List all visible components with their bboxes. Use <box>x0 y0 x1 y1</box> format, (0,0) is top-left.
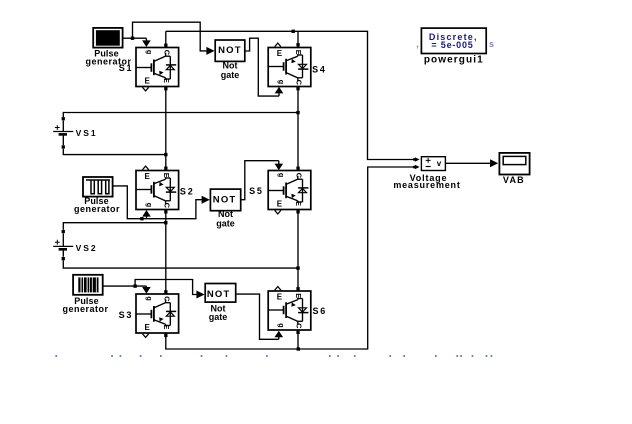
label: Pulse generator (3) <box>62 296 108 314</box>
S6 unconnected E port marker <box>275 287 281 291</box>
S5 collector port <box>296 167 299 170</box>
S2 collector (top) port <box>164 167 167 170</box>
svg-text:VAB: VAB <box>503 175 525 185</box>
svg-text:E: E <box>145 77 151 86</box>
svg-text:C: C <box>295 173 304 178</box>
wire: branch up to S2 gate <box>142 210 151 219</box>
faint clipped text artifacts beside powergui block <box>416 39 494 49</box>
wire: branch up and over to NOT gate 1 input <box>133 22 215 55</box>
svg-text:S1: S1 <box>119 63 134 73</box>
wire: voltage measurement output to scope <box>445 159 498 167</box>
S3 collector port <box>164 290 167 293</box>
S5 unconnected E port marker <box>275 210 281 214</box>
wire: bottom rail from S3 emitter up to voltage measurement - input <box>166 167 414 349</box>
scope VAB <box>499 153 529 175</box>
junction: S6 joins bottom rail <box>297 347 300 350</box>
S4 unconnected E port marker <box>275 43 281 47</box>
svg-text:g: g <box>277 80 286 84</box>
svg-text:C: C <box>295 80 304 85</box>
faint blue caption dots along the bottom <box>55 355 492 357</box>
wire: NOT gate 1 output to S4 gate <box>245 38 283 96</box>
svg-text:generator: generator <box>74 204 120 214</box>
junction: VS1 plus joins right leg <box>296 111 299 114</box>
wire: VS2 - down and to right leg <box>63 260 298 268</box>
wire: PG2 output over to NOT gate 2 input <box>113 186 210 219</box>
NOT gate U2 <box>210 189 240 211</box>
S2 bottom port <box>164 210 167 213</box>
svg-text:measurement: measurement <box>393 180 460 190</box>
svg-text:NOT: NOT <box>213 195 237 206</box>
powergui block <box>421 28 486 53</box>
wire: drop to S4 collector <box>297 31 299 47</box>
label: Pulse generator (1) <box>85 49 131 67</box>
svg-text:E: E <box>294 293 303 298</box>
svg-text:E: E <box>277 200 283 209</box>
wire: Pulse generator 1 output <box>123 37 133 39</box>
voltage measurement block U4 <box>421 157 445 171</box>
wire: left leg S1 emitter to S2 collector <box>165 87 167 171</box>
wire: branch to S3 gate <box>135 286 151 294</box>
S4 collector port <box>296 43 299 46</box>
pulse generator 1 (black icon block) <box>93 28 122 48</box>
S3 emitter port <box>164 334 167 337</box>
label: Pulse generator (2) <box>74 196 120 214</box>
junction: top rail branch to S4 collector <box>292 30 295 33</box>
svg-text:VS2: VS2 <box>76 243 98 253</box>
wire: branch over to NOT gate 3 input <box>135 280 205 299</box>
wire: VS1 - down and to left leg <box>63 149 166 155</box>
svg-text:C: C <box>162 50 171 55</box>
voltage measurement - input port <box>413 165 420 170</box>
DC source VS2 <box>53 230 73 260</box>
S2 unconnected E port marker <box>143 166 149 170</box>
S6 collector (top) port <box>296 287 299 290</box>
S6 bottom port <box>296 331 299 334</box>
voltage measurement + input port <box>413 157 420 162</box>
junction: PG1 output branch <box>131 37 134 40</box>
junction: VS2 plus joins left leg <box>164 221 167 224</box>
svg-text:generator: generator <box>62 304 108 314</box>
junction: VS2 minus joins right leg <box>296 266 299 269</box>
svg-text:gate: gate <box>209 312 228 322</box>
svg-text:E: E <box>145 172 151 181</box>
NOT gate U1 <box>215 40 245 61</box>
transistor S3 (IGBT/Diode) <box>136 294 179 333</box>
svg-text:gate: gate <box>221 70 240 80</box>
wire: right leg S5 emitter to S6 collector <box>297 210 299 292</box>
svg-text:= 5e-005: = 5e-005 <box>431 40 473 50</box>
pulse generator 2 (pulse icon block) <box>83 177 113 197</box>
S5 emitter port <box>296 210 299 213</box>
svg-text:VS1: VS1 <box>76 128 98 138</box>
svg-text:E: E <box>162 173 171 178</box>
S1 collector port <box>164 44 167 47</box>
svg-text:E: E <box>162 78 171 83</box>
wire: branch to S1 gate <box>133 38 151 47</box>
wire: PG3 output <box>103 285 135 287</box>
pulse generator 3 (dense pulse icon block) <box>73 275 103 295</box>
svg-text:g: g <box>145 203 154 207</box>
transistor S1 (IGBT/Diode) <box>136 48 179 87</box>
S1 emitter port <box>164 87 167 90</box>
svg-text:S2: S2 <box>180 186 195 196</box>
junction: PG2 wire branch to S2 gate <box>140 217 143 220</box>
transistor S5 (IGBT/Diode) <box>268 171 311 210</box>
DC source VS1 <box>53 117 73 149</box>
wire: S1 collector up to top rail <box>165 31 167 47</box>
svg-text:s: s <box>489 39 494 49</box>
svg-text:S4: S4 <box>312 65 327 75</box>
svg-text:v: v <box>437 159 442 168</box>
svg-text:E: E <box>277 49 283 58</box>
svg-text:E: E <box>145 323 151 332</box>
label: Not gate (2) <box>216 209 235 228</box>
svg-text:g: g <box>145 50 154 54</box>
S3 unconnected E port marker <box>143 334 149 338</box>
svg-text:gate: gate <box>216 218 235 228</box>
svg-text:S6: S6 <box>312 306 327 316</box>
transistor S4 (IGBT/Diode, flipped) <box>268 48 311 87</box>
NOT gate U3 <box>205 284 236 303</box>
junction: VS1 minus joins left leg <box>164 153 167 156</box>
svg-text:,: , <box>416 39 419 49</box>
svg-text:E: E <box>294 50 303 55</box>
wire: NOT gate 3 output to S6 gate <box>236 294 283 339</box>
label: Not gate (1) <box>221 61 240 80</box>
svg-text:NOT: NOT <box>218 45 242 56</box>
svg-text:E: E <box>294 201 303 206</box>
wire: left leg S2 to S3 <box>165 210 167 295</box>
svg-text:NOT: NOT <box>207 289 231 300</box>
svg-text:C: C <box>162 296 171 301</box>
transistor S6 (IGBT/Diode, flipped) <box>268 291 311 330</box>
wire: right leg S4 emitter to S5 collector <box>297 87 299 171</box>
label: Voltage measurement <box>393 173 460 190</box>
svg-text:S5: S5 <box>249 186 264 196</box>
S1 unconnected E port marker <box>143 87 149 91</box>
svg-text:C: C <box>162 203 171 208</box>
svg-text:g: g <box>145 296 154 300</box>
svg-text:E: E <box>277 292 283 301</box>
wire: NOT gate 2 output to S5 gate <box>241 161 283 200</box>
label: Not gate (3) <box>209 304 228 322</box>
S4 emitter port <box>296 87 299 90</box>
svg-text:g: g <box>277 323 286 327</box>
svg-text:g: g <box>277 173 286 177</box>
svg-text:E: E <box>162 325 171 330</box>
transistor S2 (IGBT/Diode, flipped) <box>136 171 179 210</box>
svg-text:powergui1: powergui1 <box>424 55 484 66</box>
wire: VS1 + up and to right leg <box>63 113 298 118</box>
wire: top rail to voltage measurement + input <box>166 31 414 159</box>
svg-text:S3: S3 <box>119 310 134 320</box>
wire: VS2 + up and to left leg <box>63 223 166 230</box>
junction: PG3 output branch <box>133 284 136 287</box>
wire: S6 bottom to rail <box>297 330 299 349</box>
svg-text:C: C <box>295 323 304 328</box>
